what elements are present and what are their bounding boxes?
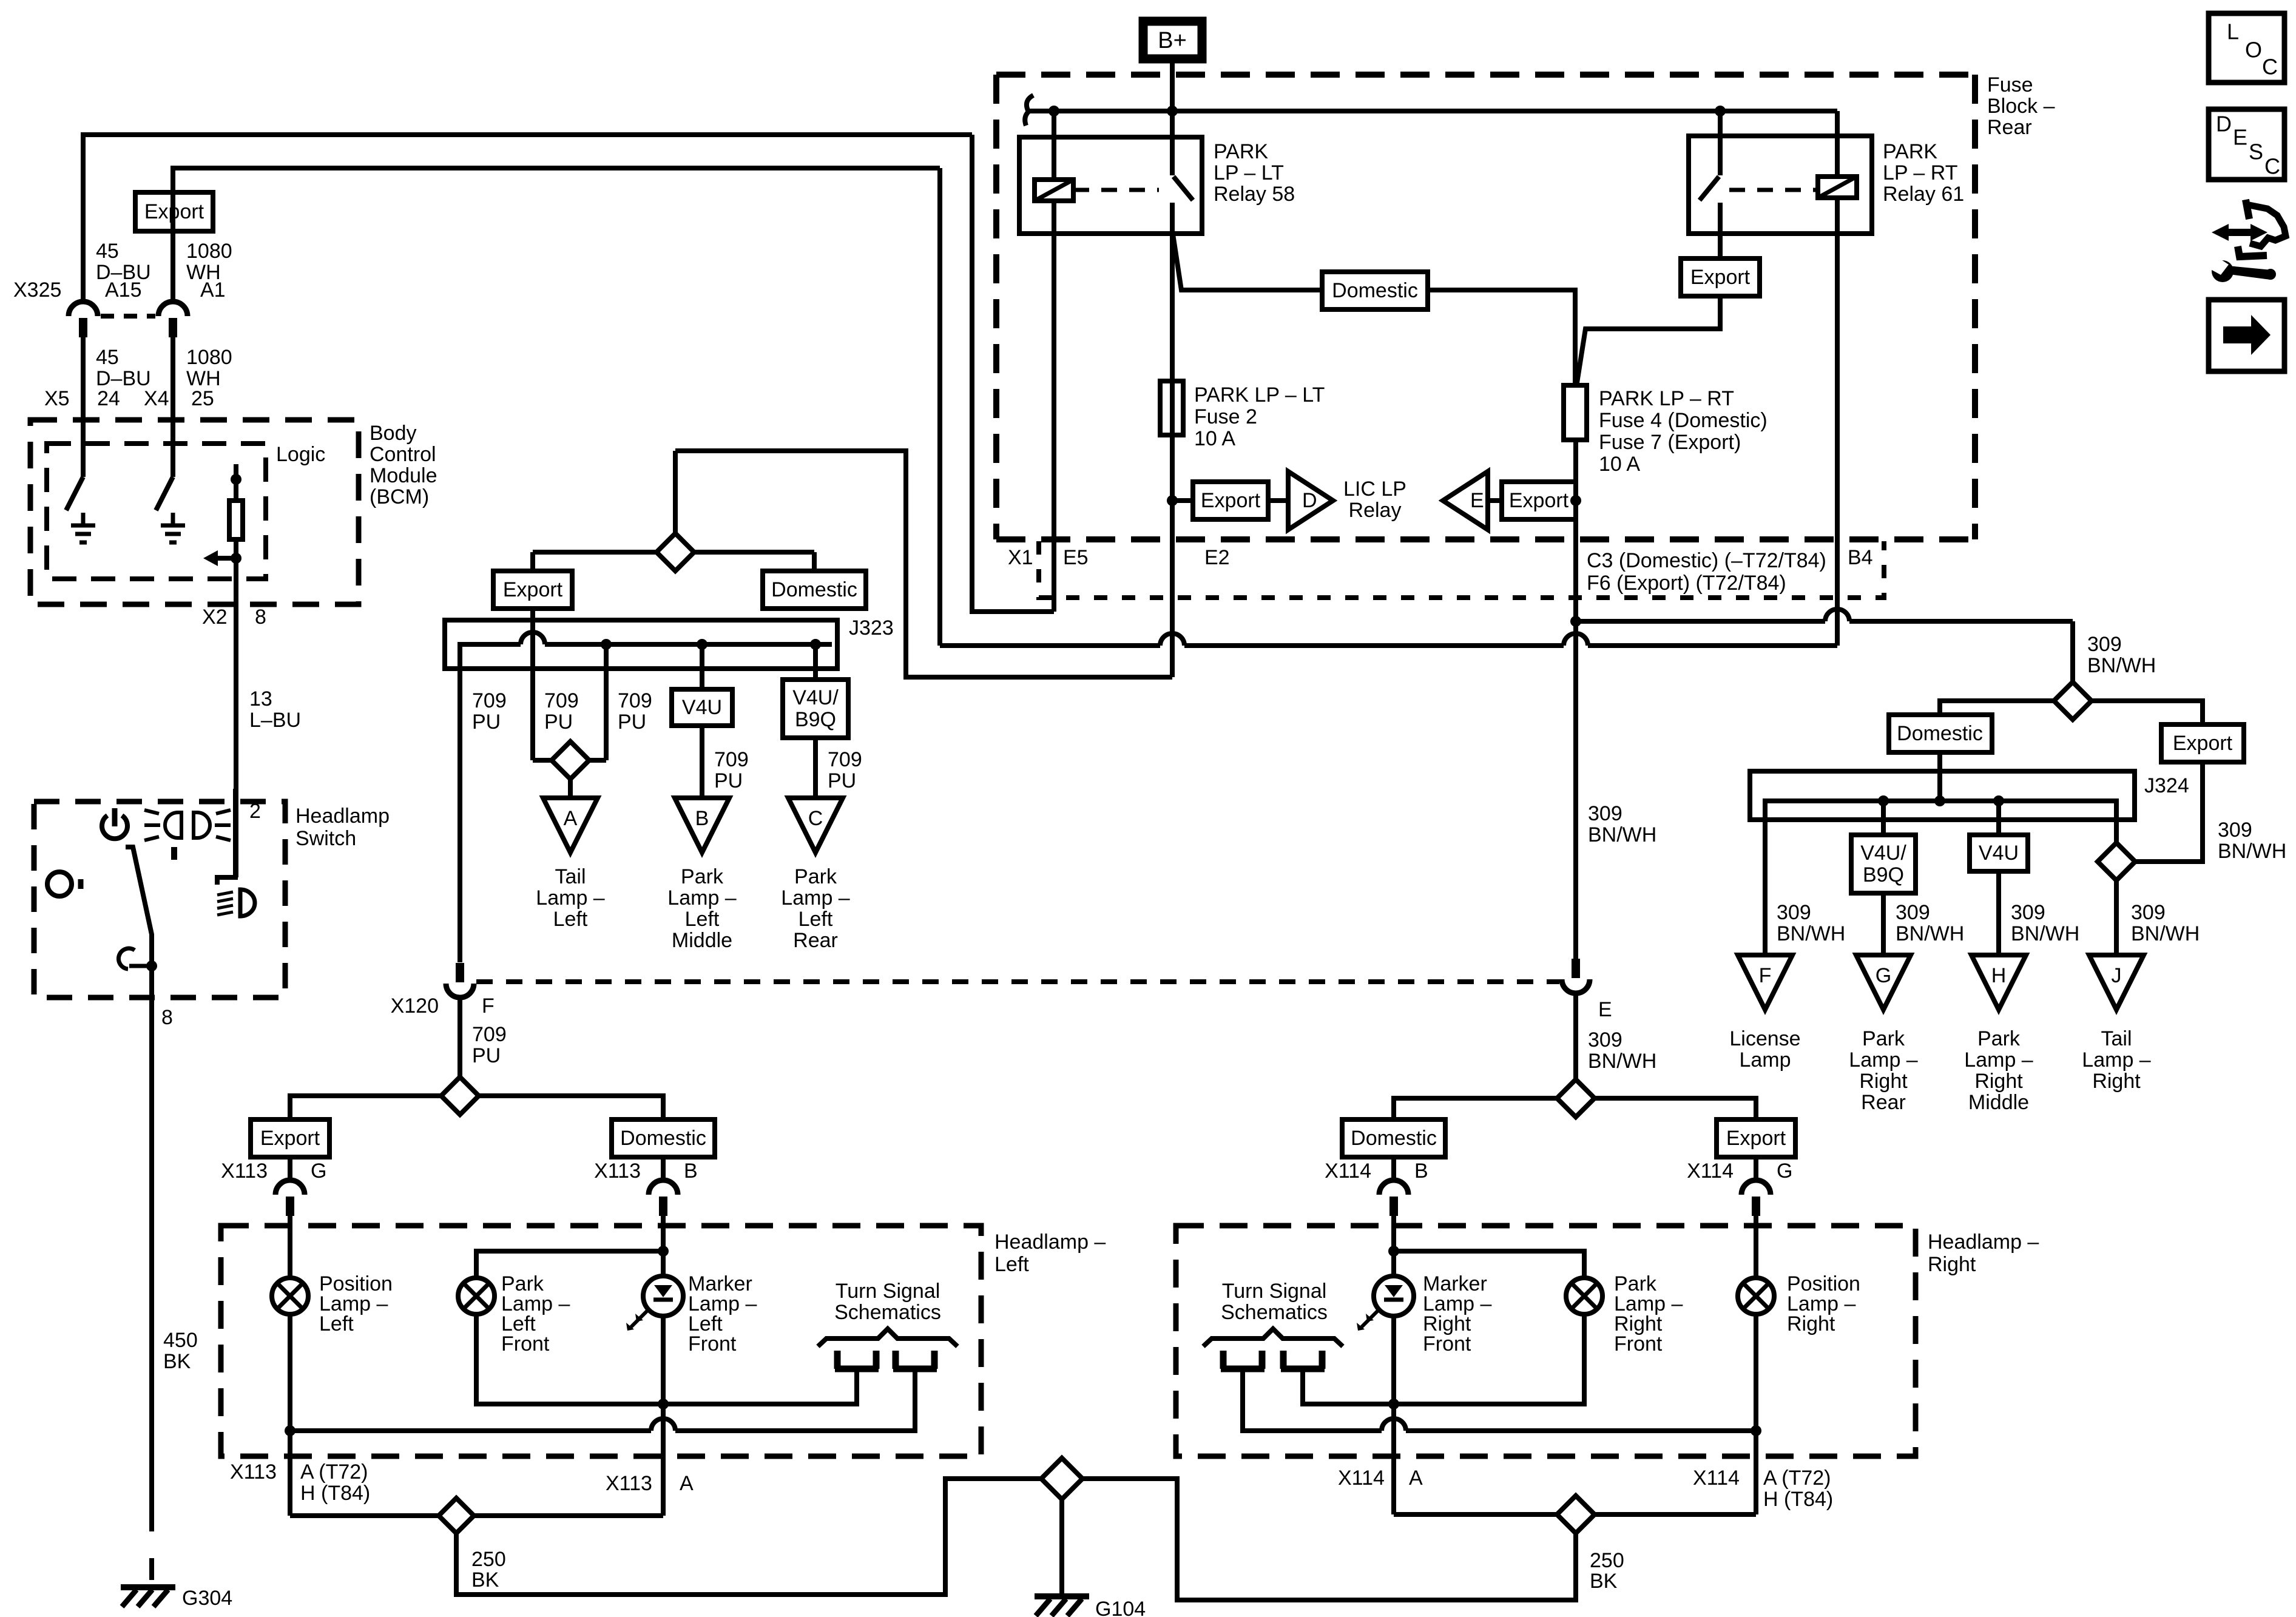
svg-text:Tail: Tail [555, 865, 586, 888]
label X113 B [594, 1160, 698, 1183]
label X4 25 [144, 387, 214, 410]
svg-text:Lamp –: Lamp – [536, 886, 604, 910]
svg-text:F: F [1759, 964, 1772, 987]
wire C3/F6 to J324 feed 309 BN/WH [1576, 609, 2073, 682]
svg-text:Front: Front [1423, 1332, 1471, 1355]
label Body Control Module (BCM) [370, 422, 437, 508]
wire B+ to bus [1170, 63, 1175, 111]
wire BCM X2/8 down to headlamp switch [234, 558, 238, 877]
label 709 PU (bus tap) [618, 689, 652, 734]
svg-text:E2: E2 [1204, 546, 1230, 569]
wire bus to V4U (right) [1993, 795, 2004, 835]
Export label box right headlamp [1717, 1119, 1795, 1157]
svg-text:J323: J323 [849, 616, 894, 640]
wire fuse 4 to C3/F6 and E connector [1573, 440, 1578, 959]
forward arrow box [2209, 300, 2284, 371]
svg-text:D: D [2216, 112, 2232, 137]
svg-text:Headlamp: Headlamp [295, 805, 390, 828]
label 250 BK left [471, 1548, 506, 1592]
svg-text:Right: Right [1787, 1312, 1835, 1335]
svg-text:45: 45 [96, 346, 119, 369]
svg-text:Export: Export [503, 578, 563, 601]
label X1 [1008, 546, 1033, 569]
svg-text:F: F [482, 994, 495, 1018]
wire Export box to X113 G [288, 1157, 292, 1180]
svg-text:X5: X5 [44, 387, 70, 410]
label 13 L-BU [249, 687, 301, 732]
wire bus to V4U/B9Q (right) [1878, 795, 1889, 835]
headlamp switch blade [126, 847, 152, 966]
label 309 BN/WH (export right) [2218, 819, 2286, 863]
svg-text:Left: Left [319, 1312, 354, 1335]
label A1 [200, 279, 226, 302]
svg-text:Lamp: Lamp [1739, 1048, 1791, 1072]
svg-text:309: 309 [2011, 901, 2045, 924]
J323 connector body [445, 620, 837, 669]
svg-text:45: 45 [96, 240, 119, 263]
svg-text:PU: PU [472, 711, 501, 734]
svg-text:10 A: 10 A [1194, 427, 1235, 450]
svg-text:Export: Export [260, 1127, 320, 1150]
E reference triangle [1443, 471, 1488, 530]
wire park lamp bottom bus left [476, 1316, 857, 1404]
svg-text:PU: PU [714, 769, 743, 792]
label X114 A [1338, 1467, 1423, 1490]
relay 58 switch [1172, 111, 1193, 200]
Domestic label box J323 [763, 571, 866, 609]
V4U option box right [1970, 835, 2028, 871]
svg-text:Left: Left [553, 908, 588, 931]
relay 61 coil [1818, 111, 1857, 198]
J323 feed diamond [657, 451, 694, 571]
label Park Lamp - Left Middle [667, 865, 736, 952]
svg-text:(BCM): (BCM) [370, 485, 429, 508]
triangle G [1856, 955, 1911, 1010]
relay 61 box [1689, 136, 1872, 234]
wire position lamp to X113 A(T72) [288, 1315, 292, 1516]
label 45 D-BU upper [96, 240, 151, 284]
svg-text:Rear: Rear [1987, 116, 2032, 139]
wrench/arrow service icon [2206, 200, 2286, 282]
svg-text:X113: X113 [221, 1160, 268, 1183]
svg-text:250: 250 [471, 1548, 506, 1571]
label Park Lamp - Right Front [1614, 1272, 1683, 1355]
park lamp right [1566, 1278, 1602, 1314]
svg-text:Domestic: Domestic [1351, 1127, 1437, 1150]
svg-text:E: E [2233, 125, 2247, 150]
svg-text:Right: Right [1974, 1070, 2023, 1093]
svg-text:13: 13 [249, 687, 272, 711]
Export label box LIC LP right [1502, 482, 1576, 519]
label Position Lamp - Left [319, 1272, 393, 1335]
fuse block B+ bus [1028, 109, 1837, 113]
svg-text:309: 309 [1588, 1028, 1622, 1052]
svg-text:Middle: Middle [672, 929, 732, 952]
svg-text:E: E [1598, 998, 1612, 1021]
wire to D triangle [1268, 498, 1288, 503]
svg-text:A: A [1409, 1467, 1423, 1490]
LOC reference box [2209, 13, 2284, 83]
wire V4U/B9Q to triangle C [813, 738, 818, 798]
label 8 below switch [161, 1006, 173, 1029]
svg-text:PARK LP – RT: PARK LP – RT [1599, 387, 1734, 410]
svg-text:PU: PU [472, 1044, 501, 1067]
wire right return to ground bus [1082, 1479, 1576, 1600]
turn signal receptacle right-1 [1221, 1351, 1264, 1369]
J tail diamond [2098, 843, 2135, 880]
J324 feed diamond [2054, 682, 2092, 720]
V4U/B9Q option box right [1851, 835, 1916, 893]
svg-text:V4U/: V4U/ [1860, 842, 1906, 865]
label PARK LP - LT Relay 58 [1214, 140, 1295, 206]
label 309 BN/WH at J324 feed [2087, 633, 2156, 677]
label Park Lamp - Left Front [501, 1272, 570, 1355]
svg-text:Left: Left [799, 908, 833, 931]
svg-text:309: 309 [1896, 901, 1930, 924]
svg-text:A1: A1 [200, 279, 226, 302]
svg-text:10 A: 10 A [1599, 453, 1640, 476]
svg-text:L–BU: L–BU [249, 709, 301, 732]
wire X114 G to position lamp right [1754, 1216, 1758, 1278]
svg-text:C: C [2262, 55, 2278, 79]
wire diamond to Domestic (left headlamp) [479, 1096, 663, 1119]
junction dot park/marker top right [1388, 1246, 1399, 1257]
svg-text:BK: BK [471, 1568, 499, 1592]
Domestic label box J324 [1889, 715, 1992, 752]
svg-text:LP – RT: LP – RT [1883, 161, 1957, 184]
svg-text:A (T72): A (T72) [300, 1460, 368, 1484]
svg-text:709: 709 [618, 689, 652, 712]
junction dot fuse4 wire / LIC LP feed [1570, 495, 1581, 506]
turn signal brace left [818, 1329, 957, 1346]
Export label box on 1080 WH wire [135, 192, 213, 231]
relay 58 coil [1035, 111, 1073, 201]
svg-text:Export: Export [1690, 266, 1751, 289]
BCM Logic dashed box [47, 444, 266, 579]
svg-text:BN/WH: BN/WH [2011, 922, 2079, 945]
svg-text:D: D [1302, 489, 1317, 512]
ground G304 [121, 1587, 232, 1610]
svg-text:24: 24 [97, 387, 120, 410]
Export label box J323 [493, 571, 572, 609]
svg-text:Right: Right [2092, 1070, 2141, 1093]
svg-text:A: A [564, 807, 578, 830]
label X325 [13, 279, 61, 302]
wire X113 G to position lamp left [288, 1216, 292, 1278]
svg-text:H (T84): H (T84) [300, 1482, 370, 1505]
svg-text:Relay 58: Relay 58 [1214, 183, 1295, 206]
label E5 [1063, 546, 1089, 569]
svg-text:Block –: Block – [1987, 95, 2055, 118]
svg-text:Switch: Switch [295, 827, 356, 850]
svg-text:1080: 1080 [186, 240, 232, 263]
wire diamond to Export (left) [533, 552, 655, 571]
svg-text:O: O [2245, 38, 2262, 62]
wire left return to ground bus [456, 1479, 1041, 1595]
junction dot relay58 coil/bus [1048, 106, 1059, 116]
label B4 [1848, 546, 1873, 569]
triangle J [2089, 955, 2144, 1010]
label A15 [105, 279, 142, 302]
wire relay 61 coil to B4 [1835, 198, 1840, 646]
wire diamond to Domestic (J324) [1940, 701, 2054, 715]
wire bus tap to A-diamond [589, 639, 612, 760]
Body Control Module dashed box [30, 420, 359, 604]
right return diamond [1394, 1496, 1756, 1533]
label Marker Lamp - Left Front [688, 1272, 757, 1355]
svg-text:A15: A15 [105, 279, 142, 302]
svg-text:C: C [2264, 154, 2280, 179]
wire E triangle to Export box [1488, 498, 1502, 503]
svg-text:Schematics: Schematics [1221, 1301, 1328, 1324]
headlamp switch power icon [102, 808, 127, 839]
svg-text:Export: Export [1509, 489, 1569, 512]
triangle A [543, 798, 598, 852]
svg-text:X114: X114 [1687, 1160, 1734, 1183]
fuse block inner connector dotted line [1039, 541, 1884, 598]
wire position lamp return bus left [285, 1369, 915, 1436]
DESC reference box [2209, 109, 2284, 180]
label Park Lamp - Left Rear [781, 865, 849, 952]
J323 bus wire [460, 632, 832, 962]
svg-text:Lamp –: Lamp – [667, 886, 736, 910]
svg-text:L: L [2227, 19, 2239, 44]
svg-text:Tail: Tail [2101, 1027, 2132, 1050]
connector X113 pin B [649, 1180, 678, 1216]
svg-text:25: 25 [191, 387, 214, 410]
svg-text:X120: X120 [391, 994, 439, 1018]
wire marker lamp down to park/turn bus right [1388, 1316, 1399, 1409]
svg-text:PU: PU [618, 711, 646, 734]
svg-text:H: H [1991, 964, 2007, 987]
A feed diamond [552, 741, 589, 798]
V4U/B9Q option box [783, 680, 848, 738]
Headlamp - Left dashed box [221, 1226, 981, 1456]
connector X325 pin A15 [69, 302, 98, 337]
svg-text:Logic: Logic [276, 443, 325, 466]
label 709 PU (export branch) [544, 689, 579, 734]
svg-text:A (T72): A (T72) [1763, 1467, 1831, 1490]
wire diamond to Export (J324) [2092, 701, 2203, 724]
label 309 BN/WH (J) [2131, 901, 2200, 945]
label J324 [2144, 774, 2189, 797]
wire E5 U-turn to 45 D-BU riser [972, 135, 1054, 612]
wire marker lamp to X113 A [661, 1404, 666, 1516]
Export label box left headlamp [251, 1119, 329, 1157]
wire Export to J diamond [2135, 762, 2203, 862]
wire Domestic into bus [1934, 752, 1945, 806]
label X120 / F [391, 994, 495, 1018]
wire relay 61 output to Export box [1718, 203, 1723, 258]
X325 dashed connector line [101, 314, 155, 319]
wire X120 to left headlamp diamond [458, 998, 462, 1077]
svg-text:309: 309 [2087, 633, 2122, 656]
svg-text:Export: Export [2173, 732, 2233, 755]
svg-text:BN/WH: BN/WH [1896, 922, 1964, 945]
svg-text:309: 309 [2131, 901, 2166, 924]
svg-text:PU: PU [544, 711, 573, 734]
wire bus to V4U [697, 639, 707, 689]
svg-text:Body: Body [370, 422, 417, 445]
svg-text:V4U: V4U [1979, 842, 2019, 865]
svg-text:X325: X325 [13, 279, 61, 302]
svg-text:Front: Front [501, 1332, 550, 1355]
headlamp switch off-contact circle [47, 872, 81, 896]
V4U option box [672, 689, 732, 726]
svg-text:Left: Left [685, 908, 720, 931]
svg-text:Lamp –: Lamp – [781, 886, 849, 910]
svg-text:Park: Park [1977, 1027, 2021, 1050]
Export label box LIC LP left [1193, 482, 1268, 519]
left headlamp feed diamond [441, 1077, 479, 1115]
svg-text:F6 (Export) (T72/T84): F6 (Export) (T72/T84) [1587, 572, 1786, 595]
wire relay 58 coil to E5 [1052, 201, 1056, 612]
label Tail Lamp - Left [536, 865, 604, 931]
svg-text:B: B [1414, 1160, 1428, 1183]
wire bus to V4U/B9Q [810, 639, 821, 680]
svg-text:V4U: V4U [682, 696, 722, 719]
Export label box below relay 61 [1681, 258, 1760, 296]
connector X114 pin G [1741, 1180, 1771, 1216]
label Headlamp - Right [1928, 1230, 2039, 1276]
svg-text:Relay 61: Relay 61 [1883, 183, 1964, 206]
svg-text:LP – LT: LP – LT [1214, 161, 1284, 184]
BCM output arrow (to other circuits) [203, 550, 241, 566]
svg-text:BK: BK [163, 1350, 191, 1373]
svg-text:709: 709 [544, 689, 579, 712]
svg-text:J324: J324 [2144, 774, 2189, 797]
ground G104 [1035, 1596, 1146, 1617]
label Headlamp - Left [994, 1230, 1106, 1276]
svg-text:250: 250 [1590, 1549, 1624, 1572]
wire marker lamp to X114 A [1391, 1404, 1396, 1514]
label C3/F6 [1587, 549, 1826, 595]
label 1080 WH upper [186, 240, 232, 284]
svg-text:J: J [2112, 964, 2122, 987]
label 309 BN/WH (H) [2011, 901, 2079, 945]
label Marker Lamp - Right Front [1423, 1272, 1491, 1355]
connector X114 pin B [1379, 1180, 1408, 1216]
svg-text:B+: B+ [1158, 28, 1187, 53]
wire Domestic box to X113 B [661, 1157, 666, 1180]
wire park lamp top link right [1394, 1251, 1584, 1278]
junction dot E2 wire / LIC LP feed [1167, 495, 1193, 506]
turn signal receptacle left-2 [893, 1351, 937, 1369]
svg-text:Domestic: Domestic [1332, 279, 1418, 302]
svg-text:709: 709 [828, 748, 862, 771]
position lamp left [272, 1278, 308, 1314]
battery B+ terminal box [1143, 21, 1202, 59]
svg-text:Fuse 7 (Export): Fuse 7 (Export) [1599, 431, 1741, 454]
fuse 4 PARK LP - RT [1564, 385, 1587, 440]
label Park Lamp - Right Rear [1849, 1027, 1917, 1114]
svg-text:Headlamp –: Headlamp – [1928, 1230, 2039, 1254]
label fuse 4 [1599, 387, 1768, 476]
label 309 BN/WH (F) [1777, 901, 1845, 945]
svg-text:Schematics: Schematics [834, 1301, 941, 1324]
turn signal receptacle right-2 [1281, 1351, 1325, 1369]
svg-text:H (T84): H (T84) [1763, 1488, 1833, 1511]
label Park Lamp - Right Middle [1964, 1027, 2033, 1114]
svg-text:C3 (Domestic) (–T72/T84): C3 (Domestic) (–T72/T84) [1587, 549, 1826, 572]
triangle H [1971, 955, 2026, 1010]
junction dot park/marker top left [658, 1246, 669, 1257]
relay 61 internal dashed link [1729, 188, 1818, 192]
svg-text:Domestic: Domestic [620, 1127, 706, 1150]
triangle B [675, 798, 729, 852]
svg-text:PARK: PARK [1214, 140, 1268, 163]
label X5 24 [44, 387, 120, 410]
label J323 [849, 616, 894, 640]
label 709 PU (X120 branch) [472, 689, 507, 734]
wire diamond to Export (right headlamp) [1595, 1098, 1756, 1119]
svg-text:BK: BK [1590, 1570, 1618, 1593]
wire relay 58 output domestic branch [1173, 234, 1575, 385]
svg-text:PARK: PARK [1883, 140, 1937, 163]
label 309 BN/WH above E [1588, 802, 1656, 846]
label 250 BK right [1590, 1549, 1624, 1593]
BCM switch X4/25 to ground [156, 444, 185, 542]
svg-text:A: A [680, 1472, 694, 1495]
turn signal receptacle left-1 [835, 1351, 879, 1369]
svg-text:309: 309 [1777, 901, 1811, 924]
svg-text:Middle: Middle [1968, 1091, 2029, 1114]
svg-text:Module: Module [370, 464, 437, 487]
label Tail Lamp - Right [2082, 1027, 2150, 1093]
svg-text:Control: Control [370, 443, 436, 466]
svg-text:450: 450 [163, 1329, 198, 1352]
wire diamond to Domestic (right) [695, 552, 814, 571]
dashed harness line X120 to E [476, 979, 1559, 984]
svg-text:X113: X113 [230, 1460, 277, 1484]
fuse 2 PARK LP - LT [1160, 381, 1183, 435]
svg-text:Export: Export [1201, 489, 1261, 512]
svg-text:X113: X113 [606, 1472, 652, 1495]
relay 58 internal dashed link [1073, 188, 1159, 192]
label Logic [276, 443, 325, 466]
wire marker lamp down to park/turn bus left [658, 1316, 669, 1409]
svg-text:BN/WH: BN/WH [1777, 922, 1845, 945]
label 45 D-BU lower [96, 346, 151, 390]
svg-text:X1: X1 [1008, 546, 1033, 569]
label fuse 2 [1194, 383, 1325, 450]
junction dot C3/F6 [1570, 616, 1581, 627]
svg-text:Relay: Relay [1349, 499, 1402, 522]
wire Domestic box to X114 B [1391, 1157, 1396, 1180]
wire V4U to triangle B [700, 726, 704, 798]
svg-text:B: B [684, 1160, 698, 1183]
svg-text:G: G [1777, 1160, 1792, 1183]
svg-text:Fuse 2: Fuse 2 [1194, 405, 1257, 428]
svg-text:C: C [808, 807, 823, 830]
wire headlamp switch output 450 BK to G304 [149, 966, 154, 1581]
svg-text:1080: 1080 [186, 346, 232, 369]
label X114 G [1687, 1160, 1792, 1183]
label X2 8 [202, 606, 266, 629]
svg-text:G104: G104 [1095, 1598, 1146, 1617]
svg-text:Domestic: Domestic [771, 578, 857, 601]
connector X325 pin A1 [158, 302, 187, 337]
connector X113 pin G [275, 1180, 305, 1216]
wire diamond to Domestic (right headlamp) [1394, 1098, 1557, 1119]
J324 bus wire [1765, 801, 2116, 955]
D reference triangle [1288, 471, 1333, 530]
BCM resistor [229, 464, 243, 558]
Export label box J324 [2161, 724, 2244, 762]
relay 58 box [1019, 137, 1202, 234]
wire 1080 WH from BCM to relay 61 coil (top run) [173, 168, 940, 477]
label Turn Signal Schematics left [834, 1280, 941, 1324]
